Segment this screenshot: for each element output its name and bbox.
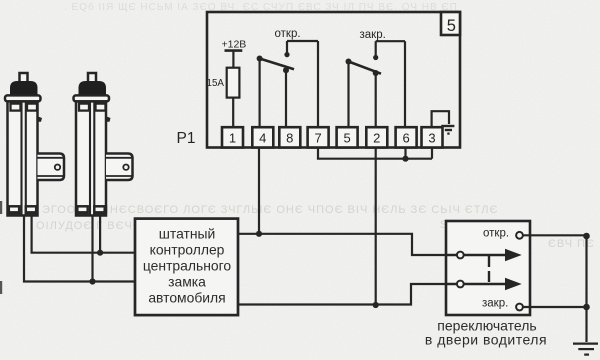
- M1 bracket inner lines: [38, 158, 64, 176]
- node +12V terminal bar: [225, 49, 243, 52]
- mechanical link dashed: [488, 256, 490, 283]
- svg-text:7: 7: [314, 130, 321, 145]
- svg-text:ЭГООЄ ВЬІНЄСВОЄГО ЛОГЄ ЗЧГЛЬ: ЭГООЄ ВЬІНЄСВОЄГО ЛОГЄ ЗЧГЛЬІЄ ОНЄ ЧПОЄ …: [42, 204, 498, 216]
- controller box: [135, 219, 238, 316]
- junction dot M2 right lead: [97, 250, 103, 256]
- switch contact circle закр out: [516, 304, 523, 311]
- switch contact circle left-close: [457, 281, 464, 288]
- M2 side nub: [106, 116, 111, 122]
- wire закр. rail: [376, 40, 405, 42]
- relay contact K1 moving contact dot: [283, 67, 289, 73]
- switch wiper arrow close: [446, 278, 522, 290]
- svg-text:8: 8: [286, 130, 293, 145]
- M2 bracket inner lines: [106, 158, 132, 176]
- M1 flange: [5, 95, 41, 101]
- switch wiper arrow open: [446, 249, 522, 261]
- M1 terminal window left: [11, 104, 21, 111]
- wire node A to door switch (открыть line): [238, 234, 457, 255]
- pin 3 box: [422, 127, 443, 147]
- pin 5 box: [337, 127, 358, 147]
- junction dot M2 left lead: [89, 278, 95, 284]
- pin boxes row: [222, 127, 443, 147]
- fuse F1 15A: [227, 68, 240, 98]
- svg-text:15А: 15А: [207, 78, 225, 89]
- caption переключатель в двери водителя: [425, 318, 547, 348]
- M2 flange: [74, 95, 110, 101]
- internal ground symbol: [441, 125, 454, 127]
- M1 bracket: [38, 154, 65, 181]
- relay contact K1 arm (откр.): [260, 59, 294, 70]
- junction dot ground rail bottom: [583, 304, 590, 311]
- svg-text:3: 3: [428, 130, 435, 145]
- M2 bracket hole: [123, 165, 128, 170]
- svg-text:автомобиля: автомобиля: [148, 289, 225, 305]
- wire node B to door switch (закрыть line): [238, 284, 457, 305]
- M1 bracket hole: [55, 165, 60, 170]
- svg-text:1: 1: [229, 130, 236, 145]
- M2 plunger rod: [88, 73, 96, 84]
- M1 body seam lines: [22, 101, 26, 215]
- svg-text:5: 5: [343, 130, 350, 145]
- svg-text:4: 4: [259, 130, 266, 145]
- wire откр. fixed contact drop: [286, 41, 288, 55]
- relay pin-count box 5: [441, 12, 460, 35]
- junction dot pin 6 on bus: [402, 156, 408, 162]
- wire откр contact to ground rail: [516, 234, 587, 236]
- svg-text:в двери водителя: в двери водителя: [425, 332, 547, 348]
- M1 bottom terminal right lip: [26, 211, 36, 214]
- M2 cap: [79, 82, 106, 96]
- relay contact K2 moving contact dot: [373, 70, 379, 76]
- M1 plunger rod: [20, 73, 28, 84]
- M1 side nub: [38, 116, 43, 122]
- wire M1 left lead down: [24, 215, 135, 281]
- relay contact K1 pivot dot: [257, 56, 263, 62]
- pin 2 box: [366, 127, 387, 147]
- wire pin 6 stub down: [404, 148, 406, 159]
- wire откр. rail: [287, 40, 318, 42]
- svg-text:2: 2: [373, 130, 380, 145]
- svg-text:ЄВЧ ПЄ: ЄВЧ ПЄ: [548, 238, 595, 250]
- wire pin 2 down to node B: [375, 148, 377, 306]
- pin 4 box: [252, 127, 273, 147]
- M2 bottom terminal left: [77, 206, 87, 213]
- relay contact K1 fixed contact dot: [284, 52, 289, 57]
- relay module box P1: [207, 12, 460, 148]
- switch contact circle left-open: [457, 252, 464, 259]
- wire pin 3 to internal ground: [432, 111, 449, 128]
- M2 terminal window right: [96, 104, 106, 111]
- node A junction dot: [256, 231, 262, 237]
- actuator M2: [74, 73, 133, 216]
- wire pin 4 to contact pivot: [259, 59, 261, 129]
- wire закр. fixed contact drop: [375, 41, 377, 57]
- svg-text:+12В: +12В: [222, 39, 247, 51]
- M1 body: [8, 101, 38, 215]
- wire M1 right lead to controller: [32, 215, 135, 252]
- wire закр. rail to pin 6: [404, 41, 406, 128]
- M2 terminal window left: [79, 104, 89, 111]
- pin 8 box: [279, 127, 300, 147]
- relay contact K2 arm (закр.): [349, 62, 382, 74]
- M1 bottom terminal right: [26, 206, 36, 213]
- wire pin 3 stub down: [431, 148, 433, 159]
- controller text: [143, 225, 232, 305]
- node B junction dot: [373, 302, 379, 308]
- M2 bottom terminal right: [94, 206, 104, 213]
- wire pin 2 to moving contact: [375, 73, 377, 129]
- svg-text:5: 5: [447, 17, 456, 35]
- wire pin 8 to moving contact: [285, 70, 287, 128]
- actuator M1: [5, 73, 64, 216]
- M2 body: [76, 101, 106, 215]
- wire bus pins 7-6-3: [317, 158, 432, 160]
- scan edge artifact left lower: [0, 281, 2, 294]
- wire M2 left lead down: [91, 215, 93, 281]
- M2 bottom terminal left lip: [77, 211, 87, 214]
- wire M2 right lead down: [99, 215, 101, 252]
- svg-text:контроллер: контроллер: [150, 241, 225, 257]
- relay contact K2 fixed contact dot: [373, 55, 378, 60]
- wire pin 7 stub down: [317, 148, 319, 159]
- M1 bottom terminal left lip: [9, 211, 19, 214]
- svg-text:закр.: закр.: [360, 29, 386, 41]
- switch contact circle откр out: [516, 232, 523, 239]
- wire +12V to fuse: [232, 51, 234, 68]
- svg-text:замка: замка: [168, 273, 206, 289]
- pin 7 box: [308, 127, 329, 147]
- wire закр contact to ground rail: [516, 306, 587, 308]
- M2 bottom terminal right lip: [94, 211, 104, 214]
- wire pin 4 down to node A: [258, 148, 260, 234]
- relay contact K2 pivot dot: [346, 59, 352, 65]
- M1 terminal window right: [27, 104, 37, 111]
- chassis ground symbol: [573, 344, 598, 355]
- svg-text:штатный: штатный: [159, 225, 216, 241]
- wire ground rail vertical: [585, 235, 587, 342]
- pin 1 box: [222, 127, 243, 147]
- M2 bracket: [106, 154, 133, 181]
- M2 body seam lines: [90, 101, 94, 215]
- wire pin 5 to contact pivot: [347, 62, 349, 129]
- door switch box: [446, 221, 530, 315]
- wire fuse to pin 1: [232, 98, 234, 128]
- M1 cap: [11, 82, 38, 96]
- scan edge artifact left upper: [0, 201, 2, 214]
- pin 6 box: [396, 127, 417, 147]
- junction dot ground rail top: [583, 233, 590, 240]
- svg-text:откр.: откр.: [483, 228, 509, 240]
- M1 bottom terminal left: [9, 206, 19, 213]
- wire откр. rail to pin 7: [317, 41, 319, 128]
- svg-text:центрального: центрального: [143, 257, 232, 273]
- svg-text:откр.: откр.: [275, 28, 301, 40]
- svg-text:закр.: закр.: [482, 298, 508, 310]
- svg-text:6: 6: [402, 130, 409, 145]
- svg-text:Р1: Р1: [177, 130, 196, 147]
